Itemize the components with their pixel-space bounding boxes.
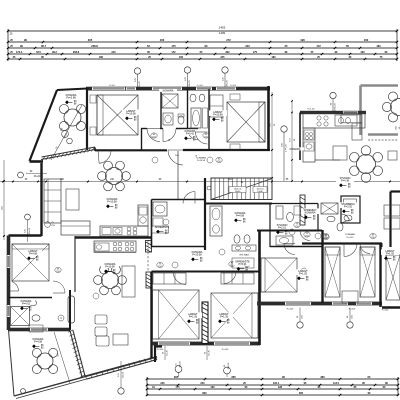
vertical dim right of kitchen x=292 xyxy=(291,101,293,181)
living bottom-left wall xyxy=(9,234,42,236)
upper apt kitchen (above divider) xyxy=(100,226,148,236)
svg-text:90: 90 xyxy=(24,38,27,42)
svg-text:160: 160 xyxy=(364,38,369,42)
bottom-right double bed xyxy=(261,258,297,292)
svg-text:360: 360 xyxy=(320,375,325,379)
svg-text:30+20: 30+20 xyxy=(34,176,41,178)
bottom dimension band xyxy=(147,378,398,380)
svg-text:240: 240 xyxy=(111,51,116,54)
door bedroom2 xyxy=(196,132,208,144)
sideboard right of dining xyxy=(388,151,397,160)
lower-left bath wc xyxy=(29,300,36,306)
svg-text:P=100: P=100 xyxy=(287,309,294,311)
corridor door arc at opening xyxy=(168,150,183,165)
svg-text:30+20: 30+20 xyxy=(29,227,31,234)
svg-text:30+20: 30+20 xyxy=(180,361,182,368)
lower-left block: bottom wall xyxy=(9,328,71,332)
partition between center-bottom bedrooms xyxy=(202,302,208,344)
svg-text:180: 180 xyxy=(99,56,104,59)
kitchen peninsula L xyxy=(315,159,340,161)
terrace TR table (clipped) xyxy=(391,99,400,116)
svg-text:128: 128 xyxy=(278,386,283,389)
svg-text:196: 196 xyxy=(300,38,305,42)
main building bottom-left corner walls xyxy=(154,345,156,362)
wall under stairs xyxy=(205,203,272,205)
svg-text:800: 800 xyxy=(202,392,207,395)
kitchen top wall xyxy=(300,111,366,114)
partition bedroom1/bath x=161 xyxy=(160,89,162,129)
hatched wall block left of center rooms xyxy=(146,272,152,288)
door bottom-right room xyxy=(284,244,295,255)
svg-text:112.5: 112.5 xyxy=(333,382,340,385)
terrace dim slanted xyxy=(54,332,70,383)
outer wall: top (main) with windows xyxy=(86,87,270,91)
short wall at terrace foot xyxy=(30,160,44,163)
terrace top-left: top slant xyxy=(57,89,87,91)
bottom wall center rooms with windows xyxy=(152,342,261,346)
svg-text:246: 246 xyxy=(160,382,165,385)
door tags xyxy=(151,133,157,138)
right apt dining table xyxy=(357,155,376,174)
lower-left bath shower xyxy=(11,307,30,326)
mid horizontal dimension line xyxy=(0,181,400,183)
svg-text:272: 272 xyxy=(226,38,231,42)
bath1 sink xyxy=(163,113,173,125)
svg-text:302: 302 xyxy=(225,51,230,54)
bath2 wc xyxy=(199,94,205,102)
living room left wall xyxy=(40,163,42,236)
svg-text:1453: 1453 xyxy=(219,25,226,29)
upper living sofa L xyxy=(44,179,61,223)
door right rooms xyxy=(300,231,310,241)
svg-text:P=1.05: P=1.05 xyxy=(386,253,395,256)
svg-text:P=4.38: P=4.38 xyxy=(341,180,350,183)
center-bottom right bed xyxy=(211,293,258,338)
nightstands bed2 xyxy=(230,94,240,100)
svg-text:P=10.58: P=10.58 xyxy=(126,113,136,116)
svg-text:P=4.02: P=4.02 xyxy=(22,303,31,306)
upper living coffee table xyxy=(66,189,79,210)
svg-text:30+20: 30+20 xyxy=(209,349,211,356)
lower-left bath sink xyxy=(32,315,40,321)
svg-text:36.7: 36.7 xyxy=(41,44,47,48)
corridor label xyxy=(181,129,199,135)
terrace top-left: left slant xyxy=(30,90,58,161)
stairs xyxy=(211,178,272,200)
svg-text:245: 245 xyxy=(220,56,225,59)
boxed labels xyxy=(152,226,169,233)
lower-left block: right wall xyxy=(69,290,71,330)
svg-text:Pv106: Pv106 xyxy=(197,85,204,87)
svg-text:130+20: 130+20 xyxy=(189,80,191,88)
svg-text:P=1.05: P=1.05 xyxy=(299,273,308,276)
svg-text:30+20: 30+20 xyxy=(167,349,169,356)
svg-text:13x30: 13x30 xyxy=(257,191,263,193)
right mid small room xyxy=(341,196,360,223)
svg-text:Pv106: Pv106 xyxy=(230,85,237,87)
svg-text:240: 240 xyxy=(245,44,250,48)
svg-text:Pv106: Pv106 xyxy=(109,85,116,87)
svg-text:30+20: 30+20 xyxy=(123,371,125,378)
left mid bath tub xyxy=(153,202,167,216)
svg-text:175: 175 xyxy=(253,51,258,54)
room labels xyxy=(62,93,80,99)
bed top-left bedroom xyxy=(97,95,138,135)
apartment divider wall y=237.5 xyxy=(75,236,152,239)
partition bath/bath2 x=187.5 xyxy=(187,89,189,129)
railing from terrace to building corner xyxy=(85,357,157,377)
svg-text:160: 160 xyxy=(160,38,165,42)
right wall top bedroom2 xyxy=(267,86,270,150)
svg-text:52.5: 52.5 xyxy=(36,51,41,54)
svg-text:160: 160 xyxy=(179,56,184,59)
door twin room xyxy=(344,244,357,257)
svg-text:SPREMIŠTE: SPREMIŠTE xyxy=(155,226,170,229)
svg-text:P=4.52: P=4.52 xyxy=(347,237,355,239)
lower living shelf xyxy=(122,266,135,297)
svg-text:1409: 1409 xyxy=(219,31,225,35)
svg-text:175: 175 xyxy=(175,386,180,389)
svg-text:P=0.41: P=0.41 xyxy=(186,133,195,136)
svg-text:30+20: 30+20 xyxy=(228,362,230,369)
wardrobe bedroom2 xyxy=(210,95,223,117)
bath row bottom wall y=128.5 xyxy=(141,128,147,130)
nightstands bed1 xyxy=(90,95,96,103)
svg-text:P=4.08: P=4.08 xyxy=(29,253,38,256)
small circle marker xyxy=(21,389,26,394)
svg-text:305: 305 xyxy=(88,38,93,42)
right bath shower xyxy=(321,203,338,214)
small circles near doors xyxy=(152,157,158,163)
center-bottom rooms outer xyxy=(150,272,152,359)
kitchen (right apt) counters xyxy=(303,113,365,128)
terrace top-left: bottom hatched railing xyxy=(41,150,95,160)
dim line across terrace xyxy=(51,105,82,160)
closets center-bottom xyxy=(153,273,186,284)
lower-left bedroom bed xyxy=(12,244,49,281)
svg-text:175: 175 xyxy=(171,44,176,48)
svg-text:172: 172 xyxy=(171,51,176,54)
twin wc center xyxy=(234,235,240,243)
corridor arcs from bath doors xyxy=(147,129,160,142)
bath2 sink xyxy=(190,94,196,102)
partition bath2/bedroom2 x=209 xyxy=(208,89,210,129)
svg-text:13x30: 13x30 xyxy=(235,191,241,193)
svg-text:P=5.01: P=5.01 xyxy=(239,263,248,266)
svg-text:P=2.01: P=2.01 xyxy=(278,227,287,230)
svg-text:Pv=3.88: Pv=3.88 xyxy=(66,97,76,100)
svg-text:KOMARA: KOMARA xyxy=(305,212,316,215)
left wall of top-left bedroom xyxy=(86,88,88,150)
svg-text:173.4: 173.4 xyxy=(16,51,23,54)
right-bottom rooms: walls vertical xyxy=(321,230,323,303)
svg-text:KOMARA: KOMARA xyxy=(345,233,355,236)
svg-text:130+20: 130+20 xyxy=(226,80,228,88)
svg-text:96.2: 96.2 xyxy=(52,51,57,54)
svg-text:160: 160 xyxy=(360,51,365,54)
svg-text:365: 365 xyxy=(299,392,304,395)
bath2 wardrobe xyxy=(203,108,208,128)
svg-text:P=100: P=100 xyxy=(222,349,229,351)
svg-text:160: 160 xyxy=(376,44,381,48)
bottom wall of top rooms (left part) xyxy=(95,149,167,151)
svg-text:P=10.58: P=10.58 xyxy=(192,254,202,257)
svg-text:265: 265 xyxy=(231,375,236,379)
door lower-left bath xyxy=(12,282,19,291)
dashed grid line x=148 down xyxy=(147,240,149,272)
svg-text:VEŠ MAŠ: VEŠ MAŠ xyxy=(239,254,249,257)
upper dining table xyxy=(106,168,123,185)
svg-text:358.8: 358.8 xyxy=(73,51,80,54)
svg-text:P=4.58: P=4.58 xyxy=(34,341,43,344)
svg-text:P=1.06: P=1.06 xyxy=(308,109,316,111)
svg-text:180: 180 xyxy=(271,56,276,59)
bath2 tub xyxy=(191,108,201,128)
svg-text:P=3.92: P=3.92 xyxy=(344,206,353,209)
svg-text:P=1.05: P=1.05 xyxy=(189,316,198,319)
svg-text:P=10.58: P=10.58 xyxy=(107,201,117,204)
door upper living (hall) xyxy=(183,192,195,204)
far right clipped bed xyxy=(386,255,400,300)
lower apt kitchen (below divider) xyxy=(94,241,136,252)
svg-text:P=10.58: P=10.58 xyxy=(197,160,206,162)
shaft hatched xyxy=(300,195,305,225)
lower-left terrace table xyxy=(37,353,53,369)
door right small room xyxy=(341,214,350,220)
bath1 wc xyxy=(178,116,184,124)
svg-text:P=10.58: P=10.58 xyxy=(105,266,115,269)
svg-text:130: 130 xyxy=(210,386,215,389)
hall walls near stairs xyxy=(271,150,273,178)
svg-text:102.1: 102.1 xyxy=(273,382,280,385)
center-bottom left bed xyxy=(153,290,200,339)
svg-text:100+20: 100+20 xyxy=(335,103,337,111)
lower living dining table xyxy=(102,272,119,289)
svg-text:240: 240 xyxy=(200,382,205,385)
door center rooms 2 xyxy=(224,272,236,284)
extra dim stems under center rooms xyxy=(164,346,166,360)
terrace TL round table xyxy=(64,109,81,126)
bottom wall of top rooms (right part) xyxy=(183,149,270,151)
door center rooms 1 xyxy=(173,272,186,285)
svg-text:295: 295 xyxy=(174,375,179,379)
right small room oval xyxy=(344,215,352,221)
svg-text:258.8: 258.8 xyxy=(91,44,98,48)
svg-text:KOMARA: KOMARA xyxy=(196,156,206,159)
bath1 shower xyxy=(162,94,178,108)
door arc lower-left bedroom xyxy=(53,281,65,293)
right-bottom: bottom wall with windows xyxy=(257,302,382,306)
far right wall segs xyxy=(389,192,391,248)
svg-text:KOMARA: KOMARA xyxy=(290,148,301,151)
svg-text:P=1.05: P=1.05 xyxy=(220,316,229,319)
lower living armchairs xyxy=(95,315,107,324)
hatched column x145-151 xyxy=(146,241,152,253)
center bath fixtures xyxy=(210,206,222,236)
bottom-left terrace: hatched balcony edge xyxy=(70,331,82,378)
svg-text:P=100: P=100 xyxy=(382,310,389,312)
center-bottom rooms: right wall xyxy=(258,230,261,345)
mid-right fixtures (washer etc) xyxy=(276,206,283,219)
svg-text:172: 172 xyxy=(316,44,321,48)
lower-left block: left outer wall with windows xyxy=(7,236,11,331)
lower-left block: partition bed/bath xyxy=(9,297,53,299)
bed top bedroom2 xyxy=(227,102,265,142)
door far right xyxy=(360,244,370,254)
grid bubbles xyxy=(137,74,139,89)
svg-text:KOMARA: KOMARA xyxy=(163,90,174,93)
walls around right bath xyxy=(270,246,322,248)
cabinets along terrace wall xyxy=(341,115,362,123)
terrace top-right walls (gray) xyxy=(361,84,399,87)
top dimension band xyxy=(8,30,397,32)
bottom stems xyxy=(299,308,301,323)
right-bottom rooms: top walls xyxy=(257,230,322,232)
site boundary bottom-left slant xyxy=(9,330,15,396)
svg-text:P=100: P=100 xyxy=(157,349,164,351)
twin beds right room xyxy=(325,247,340,297)
door in right wall (rounded) xyxy=(68,296,75,323)
corridor wall x=141 xyxy=(141,129,143,151)
svg-text:P=4.08: P=4.08 xyxy=(236,215,245,218)
svg-text:P=10.58: P=10.58 xyxy=(213,114,223,117)
